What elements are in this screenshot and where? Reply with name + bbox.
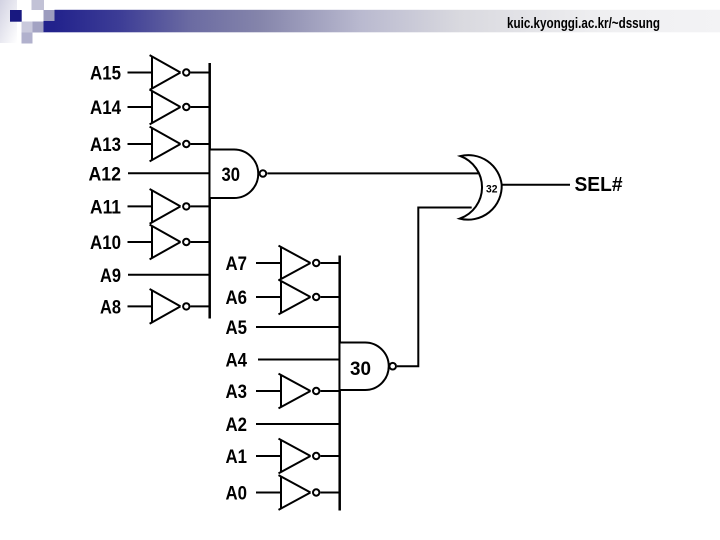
- wire A0 input stub: [256, 492, 281, 494]
- svg-text:A14: A14: [90, 97, 121, 119]
- svg-text:SEL#: SEL#: [575, 174, 623, 196]
- svg-text:A7: A7: [226, 253, 248, 275]
- NAND U1 input bar: [208, 63, 211, 319]
- svg-text:A0: A0: [226, 483, 248, 505]
- NAND gate U1 body: [211, 150, 259, 199]
- wire U2 output to OR gate: [397, 208, 472, 367]
- wire A10 input stub: [128, 241, 153, 243]
- svg-text:A2: A2: [226, 414, 248, 436]
- wire A6 inverter output: [320, 296, 339, 298]
- inverter A11: [150, 189, 190, 224]
- inverter A8: [150, 289, 190, 324]
- wire U1 output to OR gate: [267, 172, 478, 174]
- NAND U2 input bar: [338, 256, 341, 511]
- inverter A7: [279, 246, 320, 281]
- wire A14 inverter output: [191, 106, 210, 108]
- svg-text:A10: A10: [90, 232, 121, 254]
- wire A5: [256, 326, 340, 328]
- svg-text:A15: A15: [90, 63, 121, 85]
- OR gate U3 body: [460, 155, 502, 220]
- wire A4: [258, 359, 340, 361]
- svg-text:A3: A3: [226, 381, 248, 403]
- inverter A3: [279, 374, 320, 409]
- wire A11 input stub: [128, 205, 153, 207]
- wire A10 inverter output: [191, 241, 210, 243]
- svg-text:A8: A8: [100, 296, 121, 318]
- svg-text:A4: A4: [226, 350, 248, 372]
- wire A12: [128, 172, 210, 174]
- wire A7 input stub: [256, 262, 281, 264]
- svg-text:A5: A5: [226, 317, 248, 339]
- wire A11 inverter output: [191, 205, 210, 207]
- wire A1 input stub: [256, 455, 281, 457]
- svg-text:30: 30: [350, 358, 371, 380]
- NAND U2 output bubble: [389, 363, 396, 370]
- inverter A6: [279, 280, 320, 315]
- wire A15 input stub: [128, 72, 153, 74]
- wire A1 inverter output: [320, 455, 339, 457]
- svg-text:A9: A9: [100, 265, 121, 287]
- wire A3 inverter output: [320, 390, 339, 392]
- svg-text:A6: A6: [226, 287, 248, 309]
- wire A6 input stub: [256, 296, 281, 298]
- wire U3 output: [502, 184, 570, 186]
- svg-text:A1: A1: [226, 446, 248, 468]
- wire A13 input stub: [128, 143, 153, 145]
- wire A9: [128, 274, 210, 276]
- inverter A15: [150, 55, 190, 90]
- NAND U1 output bubble: [260, 170, 267, 177]
- wire A8 input stub: [128, 305, 153, 307]
- inverter A13: [150, 127, 190, 162]
- inverter A14: [150, 90, 190, 125]
- wire A8 inverter output: [191, 305, 210, 307]
- svg-text:kuic.kyonggi.ac.kr/~dssung: kuic.kyonggi.ac.kr/~dssung: [507, 15, 660, 32]
- wire A3 input stub: [256, 390, 281, 392]
- wire A2: [256, 423, 340, 425]
- inverter A10: [150, 225, 190, 260]
- wire A13 inverter output: [191, 143, 210, 145]
- wire A14 input stub: [128, 106, 153, 108]
- svg-text:A11: A11: [90, 196, 121, 218]
- wire A15 inverter output: [191, 72, 210, 74]
- inverter A1: [279, 439, 320, 474]
- svg-text:A12: A12: [89, 164, 122, 186]
- inverter A0: [279, 475, 320, 510]
- NAND gate U2 body: [341, 343, 389, 391]
- svg-text:A13: A13: [90, 134, 121, 156]
- svg-text:30: 30: [222, 164, 241, 186]
- svg-text:32: 32: [486, 183, 498, 195]
- wire A7 inverter output: [320, 262, 339, 264]
- wire A0 inverter output: [320, 492, 339, 494]
